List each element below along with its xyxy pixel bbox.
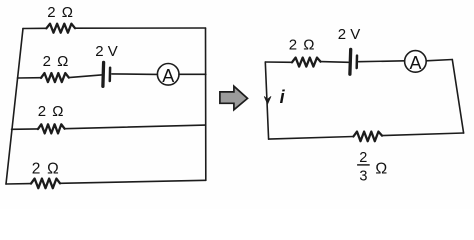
svg-text:i: i: [280, 87, 286, 107]
svg-text:2 Ω: 2 Ω: [289, 37, 316, 54]
svg-text:3: 3: [359, 168, 367, 184]
resistor R2 2ohm branch2: [41, 73, 69, 82]
wire bottom right to resistor: [382, 133, 464, 136]
svg-text:Ω: Ω: [375, 160, 387, 177]
svg-text:A: A: [409, 53, 421, 73]
wire resistor to bottom left corner: [269, 137, 354, 140]
wire top branch right: [75, 27, 206, 29]
wire top left to resistor: [265, 61, 292, 63]
wire right edge: [205, 28, 207, 180]
svg-text:2 Ω: 2 Ω: [43, 53, 70, 70]
wire battery to ammeter: [112, 73, 158, 76]
ammeter A2: [405, 51, 427, 73]
wire bottom branch left: [6, 183, 31, 185]
resistor R6 two-thirds ohm bottom: [353, 132, 382, 142]
resistor R4 2ohm bottom branch: [31, 179, 60, 189]
wire ammeter to top right corner: [426, 60, 452, 61]
wire battery to ammeter: [359, 60, 405, 63]
wire ammeter to right edge: [179, 73, 206, 75]
wire top branch left: [23, 27, 46, 29]
wire left edge: [6, 29, 23, 185]
wire branch3 left: [12, 128, 39, 130]
battery V1 2V positive plate: [101, 62, 105, 86]
svg-text:2 Ω: 2 Ω: [32, 160, 60, 177]
wire branch2 left: [18, 77, 42, 79]
label R6 fraction two over three ohm: [357, 150, 387, 185]
wire resistor to battery: [321, 61, 349, 64]
wire branch2 resistor to battery: [69, 75, 102, 78]
wire branch3 right: [65, 125, 206, 129]
battery V2 negative plate: [355, 56, 358, 68]
svg-text:2: 2: [359, 150, 367, 166]
wire right edge: [452, 60, 463, 134]
wire bottom branch right: [60, 180, 206, 183]
svg-text:A: A: [162, 66, 174, 86]
svg-text:2 V: 2 V: [338, 26, 361, 43]
ammeter A1: [157, 64, 179, 86]
battery V2 2V positive plate: [348, 49, 352, 74]
svg-text:2 Ω: 2 Ω: [47, 4, 74, 21]
current arrowhead on left edge: [264, 97, 271, 104]
wire left edge with current direction: [265, 62, 268, 139]
svg-text:2 V: 2 V: [95, 43, 118, 60]
resistor R1 2ohm top branch: [46, 24, 75, 33]
battery V1 negative plate: [109, 68, 112, 81]
resistor R3 2ohm branch3: [38, 124, 65, 133]
svg-text:2 Ω: 2 Ω: [38, 103, 65, 120]
resistor R5 2ohm top: [292, 58, 321, 67]
